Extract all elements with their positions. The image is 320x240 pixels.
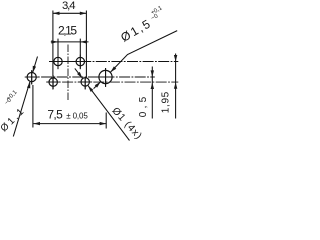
pin hole bottom-left (49, 78, 57, 86)
svg-text:0,5: 0,5 (138, 96, 149, 117)
centerline vertical symmetry axis (67, 45, 69, 101)
crosshair hole D1,1 (25, 70, 39, 84)
centerline horizontal main through holes D1,1 and D1,5 (26, 76, 155, 78)
extension line 2,15 left and centerline top-left pin (57, 39, 59, 70)
arrowhead 1,95 top pointing down (174, 55, 177, 62)
crosshair top-right pin (73, 55, 87, 69)
arrowhead 1,95 bottom pointing up (174, 82, 177, 89)
arrowhead 7,5 right (100, 122, 107, 125)
svg-text:± 0,05: ± 0,05 (66, 111, 88, 120)
extension line 3,4 right (85, 11, 87, 79)
arrowhead D1,1 lower pointing up at hole (27, 81, 32, 88)
crosshair hole D1,5 (97, 68, 115, 86)
arrowhead 3,4 left (53, 12, 60, 15)
arrowhead D1,1 upper pointing down at hole (31, 66, 36, 73)
svg-text:3,4: 3,4 (62, 0, 76, 12)
centerline bottom pin row (47, 81, 179, 83)
pin hole top-left (54, 57, 62, 65)
dimension line 1,95 (175, 54, 177, 119)
hole D1,5 (99, 70, 112, 83)
dimension line 2,15 (51, 41, 89, 43)
pin hole bottom-right (81, 78, 89, 86)
extension line 7,5 right (105, 113, 107, 129)
vertical centerline hole D1,1 (31, 71, 33, 85)
svg-text:Ø1,1: Ø1,1 (0, 107, 26, 135)
label D1,1 with tolerance rotated (0, 89, 33, 134)
svg-text:Ø1,5: Ø1,5 (118, 17, 153, 45)
label D1,5 with tolerance rotated (117, 5, 169, 45)
arrowhead 7,5 left (33, 122, 40, 125)
dimension line D1,1 through hole (13, 57, 37, 137)
extension line 7,5 left (32, 85, 34, 128)
dimension tail D1,5 lower-left (94, 82, 101, 89)
vertical centerline bottom-right pin (84, 78, 86, 90)
crosshair bottom-left pin (46, 75, 60, 89)
dimension line 0,5 (151, 67, 153, 119)
extension line 2,15 right and centerline top-right pin (79, 39, 81, 70)
arrowhead D1 upper-left pointing down-right at pin (77, 72, 84, 79)
dimension line 3,4 (53, 12, 87, 14)
arrowhead 3,4 right (80, 12, 87, 15)
dimension leader D1 4x through hole (75, 68, 130, 140)
arrowhead D1 lower-right pointing up-left at pin (87, 85, 94, 92)
pin hole top-right (76, 57, 84, 65)
hole D1,1 (27, 73, 36, 82)
arrowhead 0,5 bottom pointing up (151, 82, 154, 89)
vertical centerline hole D1,5 (105, 68, 107, 87)
extension line 3,4 left and centerline of bottom-left pin (52, 11, 54, 90)
centerline top pin row (49, 61, 178, 63)
leader D1,5 with bend and shoulder under label (110, 31, 177, 73)
dimension line 7,5 (33, 123, 106, 125)
arrowhead 2,15 right pointing left (80, 40, 87, 43)
svg-text:7,5: 7,5 (47, 108, 63, 122)
crosshair bottom-right pin (78, 77, 92, 89)
crosshair top-left pin (51, 55, 65, 69)
svg-text:2,15: 2,15 (58, 23, 77, 37)
arrowhead 0,5 top pointing down (151, 70, 154, 77)
arrowhead 2,15 left pointing right (51, 40, 58, 43)
svg-text:1,95: 1,95 (160, 91, 171, 113)
arrowhead D1,5 lower pointing up-right at hole (95, 81, 102, 88)
arrowhead D1,5 upper pointing down-left at hole (109, 66, 116, 73)
